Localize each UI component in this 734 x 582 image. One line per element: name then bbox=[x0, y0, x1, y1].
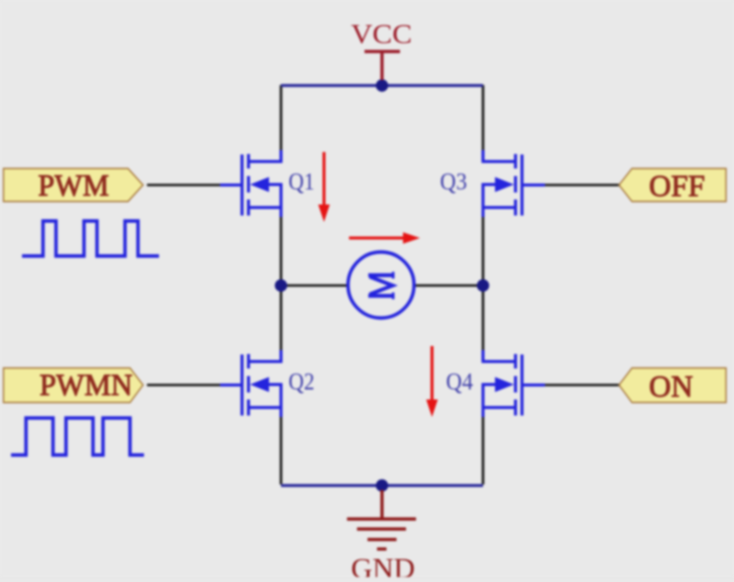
svg-text:OFF: OFF bbox=[649, 168, 705, 203]
svg-text:PWMN: PWMN bbox=[40, 367, 133, 402]
port flag ON bbox=[619, 368, 726, 403]
svg-text:PWM: PWM bbox=[38, 168, 109, 203]
wire: GND bottom rail bbox=[281, 484, 483, 487]
svg-text:GND: GND bbox=[351, 554, 415, 577]
wire: Q4 gate to ON flag bbox=[545, 384, 620, 387]
wire: right vertical (Q3 source to right motor node) bbox=[482, 217, 485, 286]
port flag OFF bbox=[619, 169, 726, 202]
wire: left vertical riser (top rail to Q1 drain) bbox=[280, 85, 283, 150]
svg-text:Q1: Q1 bbox=[289, 170, 315, 196]
wire: PWMN flag to Q2 gate bbox=[147, 384, 220, 387]
transistor Q4 bbox=[483, 350, 545, 417]
red arrow: current through Q4 bbox=[426, 346, 438, 417]
port flag PWM bbox=[4, 169, 144, 202]
wire: PWM flag to Q1 gate bbox=[147, 184, 220, 187]
svg-text:Q3: Q3 bbox=[440, 170, 467, 196]
wire: right vertical (Q4 source to bottom rail) bbox=[482, 417, 485, 485]
port flag PWMN bbox=[4, 368, 144, 403]
transistor Q2 bbox=[220, 350, 281, 417]
wire: left vertical (left motor node to Q2 drain) bbox=[280, 286, 283, 351]
waveform: PWM pulse train bbox=[22, 221, 159, 256]
svg-text:VCC: VCC bbox=[351, 19, 412, 49]
junction dot top (VCC node) bbox=[376, 79, 388, 91]
junction dot left motor node bbox=[275, 279, 287, 291]
waveform: PWMN pulse train bbox=[11, 418, 144, 455]
svg-text:ON: ON bbox=[649, 369, 693, 404]
transistor Q3 bbox=[483, 150, 545, 217]
wire: left vertical (Q2 source to bottom rail) bbox=[280, 417, 283, 485]
transistor Q1 bbox=[220, 150, 281, 217]
motor letter M (rotated, drawn as path) bbox=[368, 272, 393, 299]
wire: VCC top rail bbox=[281, 84, 483, 87]
svg-text:Q2: Q2 bbox=[289, 370, 315, 396]
wire: Q3 gate to OFF flag bbox=[545, 184, 620, 187]
junction dot bottom (GND node) bbox=[376, 479, 388, 491]
wire: motor to right motor node bbox=[415, 284, 483, 287]
junction dot right motor node bbox=[477, 279, 489, 291]
power symbol VCC bbox=[365, 52, 401, 81]
wire: right vertical riser (top rail to Q3 drain) bbox=[482, 85, 485, 150]
red arrow: current through Q1 bbox=[318, 152, 330, 222]
motor M1 circle bbox=[348, 252, 414, 318]
wire: left motor node to motor bbox=[281, 284, 348, 287]
wire: left vertical (Q1 source to left motor node) bbox=[280, 217, 283, 286]
svg-text:Q4: Q4 bbox=[446, 370, 473, 396]
red arrow: current through motor bbox=[349, 232, 420, 244]
ground symbol bbox=[347, 490, 416, 549]
wire: right vertical (right motor node to Q4 drain) bbox=[482, 286, 485, 351]
